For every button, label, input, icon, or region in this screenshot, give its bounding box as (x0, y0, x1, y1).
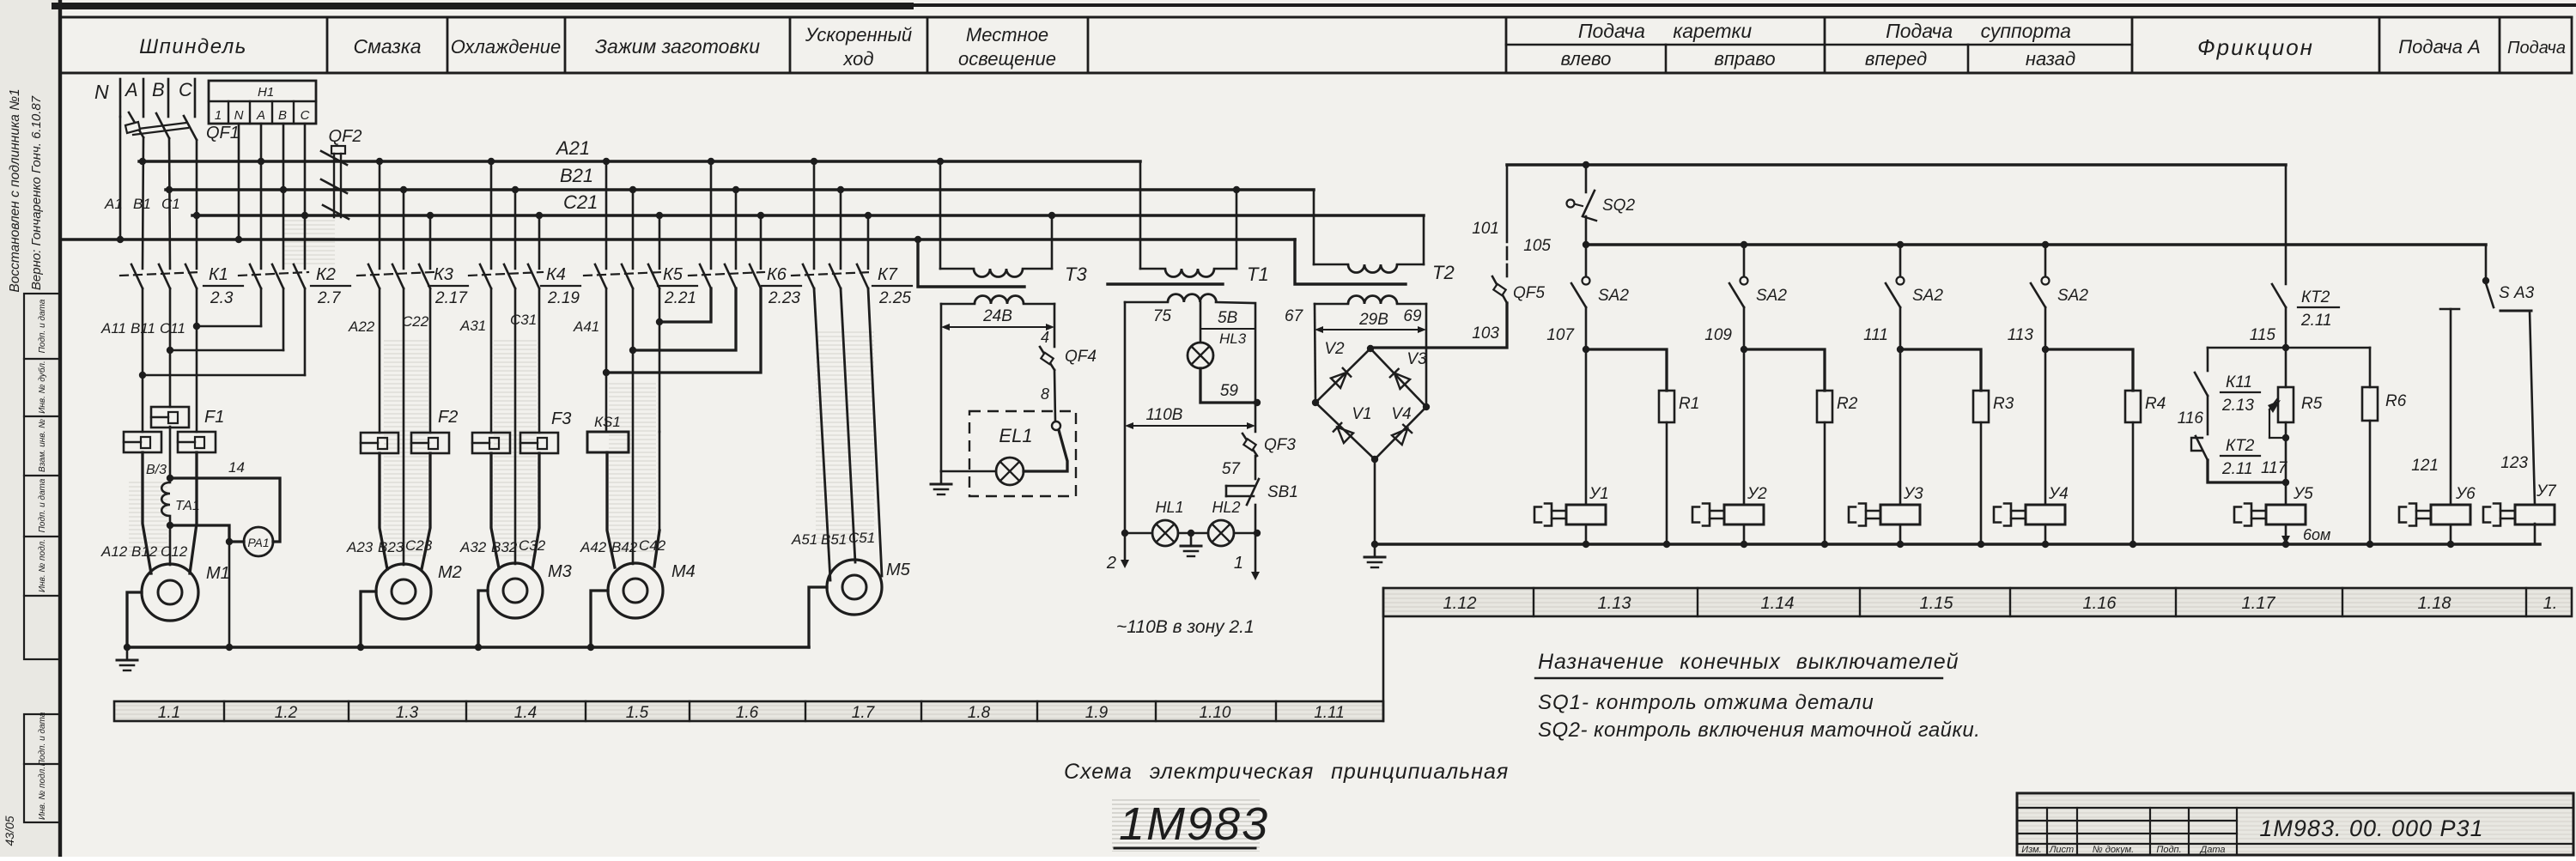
dashed enclosure EL1 (969, 411, 1076, 496)
thermal relay KS1 (587, 414, 629, 452)
svg-text:V4: V4 (1391, 405, 1411, 423)
svg-text:Охлаждение: Охлаждение (451, 36, 561, 58)
motor M4 (608, 562, 696, 618)
svg-text:67: 67 (1285, 307, 1304, 325)
control line top (1507, 163, 2286, 167)
wire SB1 down (1255, 505, 1257, 533)
svg-text:К5: К5 (663, 265, 683, 284)
ground symbol bridge (1374, 544, 1376, 557)
title block (2017, 793, 2573, 855)
lamp HL1 (1152, 520, 1178, 546)
svg-text:Н1: Н1 (258, 85, 274, 100)
junction dot 115 (2282, 344, 2289, 351)
wire HL3 to node 59 (1200, 368, 1257, 403)
wire N feeder (119, 117, 122, 240)
svg-text:Подача каретки: Подача каретки (1578, 20, 1753, 42)
contactor K2 contacts (239, 264, 350, 307)
svg-text:QF4: QF4 (1065, 348, 1097, 366)
wire R5 to Y5 (2285, 422, 2287, 505)
svg-text:НL2: НL2 (1212, 499, 1240, 516)
svg-text:110В: 110В (1146, 406, 1183, 424)
node 115 bus (2208, 347, 2370, 349)
svg-text:вперед: вперед (1865, 48, 1927, 70)
svg-text:Инв. № подл.: Инв. № подл. (38, 767, 47, 820)
wire M5 to ground bus (809, 587, 827, 647)
wires K5 to motor M4 (606, 288, 659, 567)
svg-text:1.14: 1.14 (1761, 594, 1795, 613)
svg-text:F2: F2 (438, 408, 458, 427)
wire KT2 branch top (2285, 165, 2287, 284)
svg-text:А: А (124, 79, 138, 100)
svg-text:24В: 24В (982, 307, 1012, 325)
switch SA2 branch 107 (1571, 245, 1629, 307)
wire jog A11 (143, 374, 305, 377)
svg-text:116: 116 (2178, 409, 2204, 427)
junction dot 113 (2042, 346, 2049, 353)
svg-text:6ом: 6ом (2303, 526, 2330, 543)
svg-text:1.15: 1.15 (1920, 594, 1954, 613)
svg-text:НL1: НL1 (1155, 499, 1183, 516)
svg-text:109: 109 (1704, 326, 1732, 344)
svg-text:А21: А21 (555, 137, 590, 159)
svg-text:К6: К6 (767, 265, 787, 284)
svg-text:2.11: 2.11 (2300, 312, 2332, 330)
dimension 24V (941, 307, 1054, 330)
svg-text:1.10: 1.10 (1200, 704, 1231, 722)
circuit breaker QF5 (1492, 276, 1545, 303)
electromagnet У4 (1994, 349, 2069, 544)
wire 2 to zone 2.1 (1106, 302, 1129, 573)
svg-text:С: С (179, 79, 192, 100)
svg-text:SВ1: SВ1 (1267, 483, 1298, 501)
motor M2 (376, 563, 462, 619)
svg-text:С11: С11 (160, 320, 185, 337)
thermal overload F3 (472, 409, 571, 453)
svg-text:SQ2- контроль включения маточн: SQ2- контроль включения маточной гайки. (1538, 719, 1980, 742)
junction dot SQ2 top (1583, 161, 1589, 168)
wire phase C to K1 (196, 140, 198, 269)
svg-text:Схема электрическая принципи: Схема электрическая принципиальная (1064, 760, 1509, 784)
svg-text:Зажим заготовки: Зажим заготовки (595, 35, 760, 58)
relay contact K11 (2195, 348, 2260, 415)
svg-text:КТ2: КТ2 (2226, 437, 2255, 455)
svg-text:1.11: 1.11 (1314, 704, 1345, 722)
svg-text:4: 4 (1041, 329, 1049, 346)
svg-text:Т1: Т1 (1247, 264, 1269, 285)
wire EL1 to ground (941, 470, 996, 473)
svg-text:123: 123 (2500, 454, 2528, 472)
svg-text:А1: А1 (104, 196, 123, 212)
svg-text:У2: У2 (1747, 485, 1767, 503)
svg-text:2.17: 2.17 (434, 289, 468, 307)
wire phase A to M1 (143, 375, 151, 573)
wire TA1 return (170, 525, 244, 542)
svg-text:У3: У3 (1903, 485, 1923, 503)
wire H1-B drop to K2 (283, 124, 285, 269)
resistor R1 (1586, 349, 1699, 544)
svg-text:2.21: 2.21 (664, 289, 696, 307)
wires K7 to motor M5 (814, 288, 882, 580)
circuit breaker QF3 (1242, 434, 1296, 456)
svg-text:Смазка: Смазка (353, 35, 421, 58)
wire H1-A drop to K2 (260, 124, 263, 269)
svg-text:1.18: 1.18 (2418, 594, 2451, 613)
wire T1 tap to HL3 (1200, 302, 1202, 343)
svg-text:А: А (256, 108, 265, 123)
svg-text:В42: В42 (611, 539, 638, 555)
svg-text:1.: 1. (2543, 594, 2558, 613)
svg-text:2.19: 2.19 (547, 289, 580, 307)
svg-text:С32: С32 (519, 537, 546, 554)
wire 117 (2208, 459, 2288, 482)
feeder separator bars (120, 79, 195, 117)
scan shading (384, 339, 428, 558)
svg-text:В12: В12 (131, 543, 158, 560)
svg-text:43/05: 43/05 (3, 816, 16, 846)
wire 1 to zone 2.1 (1234, 533, 1260, 580)
svg-text:N: N (234, 108, 244, 123)
ground symbol HL (1190, 533, 1193, 546)
wire phase B TA1 section (169, 350, 172, 482)
svg-text:М4: М4 (671, 562, 696, 581)
electromagnet У1 (1534, 349, 1609, 544)
svg-text:1М983. 00. 000 Р31: 1М983. 00. 000 Р31 (2259, 816, 2483, 841)
svg-text:освещение: освещение (958, 48, 1056, 70)
junction dots on buses (117, 158, 1240, 243)
diode V4 (1392, 424, 1413, 445)
svg-text:Инв. № подл.: Инв. № подл. (38, 539, 47, 592)
junction dots R5 (2282, 434, 2289, 486)
wire M3 to ground bus (478, 591, 488, 647)
thermal overload F1 (124, 407, 224, 452)
transformer T2 primary (1314, 262, 1455, 283)
svg-text:1.4: 1.4 (514, 704, 537, 722)
bus C21 (192, 191, 1424, 215)
svg-text:8: 8 (1041, 385, 1049, 403)
svg-text:Подп. и дата: Подп. и дата (38, 299, 47, 353)
wire T2 secondary left to bridge (1315, 304, 1315, 403)
resistor R2 (1744, 349, 1858, 544)
svg-text:С51: С51 (848, 530, 875, 546)
svg-text:Подача А: Подача А (2398, 36, 2481, 58)
svg-text:НL3: НL3 (1219, 330, 1247, 347)
svg-text:Подп. и дата: Подп. и дата (38, 478, 47, 532)
svg-text:С23: С23 (405, 537, 433, 554)
zone strip connector (1382, 588, 1385, 721)
svg-text:1: 1 (215, 108, 222, 123)
lamp EL1 (996, 458, 1024, 485)
wire 107 (1546, 307, 1586, 349)
svg-text:А41: А41 (573, 318, 599, 335)
dimension 110V (1125, 406, 1255, 429)
svg-text:Назначение конечных выключат: Назначение конечных выключателей (1538, 650, 1959, 674)
svg-text:Подп.: Подп. (2156, 845, 2181, 855)
contactor K3 contacts (357, 161, 468, 307)
switch SA2 branch 109 (1729, 245, 1787, 307)
svg-text:QF2: QF2 (329, 127, 362, 146)
wire bridge minus to bus (1374, 459, 1376, 544)
EL1 switch blade (1024, 430, 1067, 471)
svg-text:111: 111 (1863, 326, 1888, 344)
svg-text:КТ2: КТ2 (2301, 288, 2330, 306)
wire 123 (2500, 311, 2535, 505)
svg-text:М1: М1 (206, 564, 230, 583)
contactor K1 contacts (120, 264, 243, 307)
transformer T3 primary (940, 161, 1087, 285)
ground symbol main (126, 647, 129, 660)
svg-text:75: 75 (1153, 307, 1172, 325)
switch SA2 branch 111 (1886, 245, 1943, 307)
selector switch SA3 (2440, 277, 2535, 311)
motor M3 (488, 562, 572, 618)
svg-text:2.11: 2.11 (2221, 460, 2253, 478)
lamp HL2 (1208, 520, 1234, 546)
wire 111 (1863, 307, 1900, 349)
switch terminal circle EL1 (1052, 421, 1060, 430)
svg-text:Подача суппорта: Подача суппорта (1886, 20, 2071, 42)
svg-text:К11: К11 (2226, 373, 2252, 391)
svg-text:В51: В51 (821, 531, 847, 548)
svg-text:С: С (301, 108, 310, 123)
svg-text:115: 115 (2250, 326, 2276, 344)
wire T1 secondary right (1255, 303, 1257, 432)
svg-text:117: 117 (2261, 459, 2288, 477)
wire H1-C drop to K2 (304, 124, 307, 269)
svg-text:Фрикцион: Фрикцион (2197, 34, 2314, 60)
wire 101 with QF5 (1472, 165, 1507, 276)
junction dot 107 (1583, 346, 1589, 353)
svg-text:105: 105 (1523, 237, 1551, 255)
svg-text:SQ1- контроль отжима детали: SQ1- контроль отжима детали (1538, 691, 1874, 714)
limit switch SQ2 (1567, 165, 1636, 245)
svg-text:А51: А51 (791, 531, 817, 548)
junction dots bridge (1312, 345, 1430, 463)
svg-text:107: 107 (1546, 326, 1575, 344)
svg-text:R1: R1 (1679, 395, 1699, 413)
svg-text:QF1: QF1 (206, 124, 240, 142)
wire 103 (1370, 303, 1507, 348)
svg-text:В21: В21 (560, 165, 593, 186)
svg-text:N: N (94, 81, 109, 103)
svg-text:59: 59 (1220, 382, 1239, 400)
svg-text:Лист: Лист (2049, 845, 2074, 855)
wires K4 to motor M3 (491, 288, 539, 568)
resistor R3 (1900, 349, 2014, 544)
junction dot 109 (1741, 346, 1747, 353)
wire 113 (2008, 307, 2045, 349)
svg-text:К2: К2 (316, 265, 336, 284)
transformer T1 primary (1140, 161, 1269, 285)
wires K3 to motor M2 (380, 288, 430, 569)
relay contact KT2 upper (2272, 284, 2339, 330)
svg-text:Восстановлен с подлинника №1: Восстановлен с подлинника №1 (8, 88, 22, 292)
handwritten 1M983 (1112, 798, 1269, 852)
svg-text:С31: С31 (510, 312, 537, 328)
svg-text:РА1: РА1 (247, 536, 269, 549)
wire 14 to ammeter (170, 459, 280, 542)
svg-text:SQ2: SQ2 (1602, 197, 1635, 215)
margin stamp column (24, 294, 60, 659)
wire N to T3 screen (918, 240, 1024, 287)
svg-text:R2: R2 (1837, 395, 1858, 413)
svg-text:А42: А42 (580, 539, 607, 555)
svg-text:В1: В1 (133, 196, 151, 212)
svg-text:Подача: Подача (2507, 39, 2566, 58)
junction dot 59 (1254, 399, 1261, 406)
svg-text:В: В (152, 79, 165, 100)
svg-text:С12: С12 (161, 543, 188, 560)
svg-text:R4: R4 (2145, 395, 2166, 413)
push button SB1 (1226, 479, 1298, 505)
circuit breaker QF4 (1040, 347, 1097, 370)
svg-text:Изм.: Изм. (2021, 845, 2041, 855)
svg-text:ЕL1: ЕL1 (999, 425, 1032, 446)
svg-text:А22: А22 (348, 318, 375, 335)
svg-text:SА2: SА2 (1912, 287, 1943, 305)
ground bus of motors (127, 646, 809, 649)
svg-text:С42: С42 (639, 537, 666, 554)
svg-text:Дата: Дата (2198, 845, 2225, 855)
svg-text:КS1: КS1 (594, 414, 621, 430)
wire K6 output jog lower (606, 288, 761, 373)
control ground bus (1375, 543, 2540, 546)
svg-text:2.3: 2.3 (210, 289, 234, 307)
svg-text:14: 14 (228, 459, 245, 476)
wire jog B11 (170, 349, 283, 352)
svg-text:1: 1 (1234, 554, 1243, 573)
wire K6 output jog upper (659, 288, 711, 322)
diode V1 (1333, 422, 1353, 443)
bus A21 (139, 137, 1140, 161)
bus N (62, 238, 1295, 241)
svg-text:103: 103 (1472, 324, 1499, 343)
svg-text:1.8: 1.8 (968, 704, 991, 722)
wire K6 output jog middle (633, 288, 736, 350)
time relay contact KT2 delayed (2191, 396, 2260, 478)
electromagnet У3 (1849, 349, 1923, 544)
svg-text:113: 113 (2008, 326, 2034, 344)
bus B21 (166, 165, 1314, 190)
svg-text:Т3: Т3 (1065, 264, 1087, 285)
circuit breaker QF2 (321, 127, 361, 219)
svg-text:назад: назад (2026, 48, 2075, 70)
wire M2 to ground bus (361, 591, 376, 647)
wire N to T2 screen (1295, 240, 1406, 284)
junction dots K1 outputs (139, 323, 200, 379)
zone strip left (114, 701, 1383, 722)
svg-text:F3: F3 (551, 409, 571, 428)
wire TA1 to M1 (169, 516, 172, 565)
current transformer TA1 (161, 482, 200, 516)
svg-text:№ докум.: № докум. (2093, 845, 2134, 855)
electromagnet Y7 (2483, 482, 2557, 544)
header table grid (60, 17, 2572, 73)
svg-text:М5: М5 (886, 561, 911, 579)
junction dots lamp line (1121, 530, 1261, 537)
wire M4 to ground bus (591, 591, 608, 647)
header label Местное освещение (958, 24, 1056, 70)
wire T2 secondary right to bridge (1425, 304, 1428, 407)
svg-text:У7: У7 (2536, 482, 2557, 500)
svg-text:~110В в зону 2.1: ~110В в зону 2.1 (1116, 617, 1255, 637)
svg-text:2: 2 (1106, 554, 1116, 573)
svg-text:57: 57 (1222, 460, 1242, 478)
svg-text:М3: М3 (548, 562, 572, 581)
svg-text:29В: 29В (1358, 311, 1388, 329)
svg-text:Т2: Т2 (1432, 262, 1455, 283)
lamp HL3 (1188, 343, 1213, 368)
svg-text:1.9: 1.9 (1085, 704, 1109, 722)
svg-text:2.7: 2.7 (317, 289, 342, 307)
contactor K5 contacts (584, 161, 697, 307)
svg-text:1.6: 1.6 (736, 704, 759, 722)
svg-text:1.12: 1.12 (1443, 594, 1477, 613)
wire B21 to T2 (1313, 190, 1315, 264)
bus 105 (1523, 237, 2486, 255)
svg-text:2.23: 2.23 (768, 289, 800, 307)
wire QF4 to EL1 switch (1054, 370, 1055, 421)
wire 115 (2250, 307, 2286, 348)
svg-text:1.7: 1.7 (852, 704, 876, 722)
wire 121 (2411, 309, 2451, 505)
wire jog C11 (197, 325, 261, 328)
svg-text:2.13: 2.13 (2221, 397, 2254, 415)
svg-text:В: В (278, 108, 287, 123)
note heading limit switches (1535, 650, 1959, 678)
svg-text:К3: К3 (434, 265, 453, 284)
svg-text:V1: V1 (1352, 405, 1371, 423)
svg-text:Инв. № дубл.: Инв. № дубл. (37, 361, 47, 414)
svg-text:5В: 5В (1218, 309, 1238, 327)
wire QF3 to SB1 (1255, 456, 1257, 479)
ammeter PA1 (244, 527, 273, 556)
rectifier bridge V1-V4 (1315, 349, 1426, 459)
svg-text:SА2: SА2 (1598, 287, 1629, 305)
diode V3 (1389, 368, 1410, 389)
terminal block H1 (209, 81, 316, 124)
svg-text:1.17: 1.17 (2242, 594, 2276, 613)
svg-text:F1: F1 (204, 408, 224, 427)
svg-text:В/3: В/3 (146, 463, 167, 477)
svg-text:С21: С21 (563, 191, 598, 213)
svg-text:1.3: 1.3 (396, 704, 419, 722)
svg-text:2.25: 2.25 (878, 289, 911, 307)
svg-text:ТА1: ТА1 (175, 499, 200, 513)
wire phase C to M1 (190, 326, 197, 573)
contactor K7 contacts (792, 161, 912, 307)
svg-text:С22: С22 (402, 313, 429, 330)
header label Ускоренный ход (805, 24, 912, 70)
rheostat R5 (2268, 348, 2323, 438)
svg-text:SА2: SА2 (2057, 287, 2088, 305)
svg-text:Ускоренный: Ускоренный (805, 24, 912, 45)
svg-text:1.13: 1.13 (1598, 594, 1631, 613)
junction dots TA1 (167, 475, 233, 545)
junction dots ground bus (124, 644, 594, 651)
svg-text:К7: К7 (878, 265, 898, 284)
contactor K4 contacts (469, 161, 580, 307)
dimension 5V (1200, 328, 1254, 330)
wire PA1 branch to ground bus (228, 542, 231, 647)
ground symbol EL1 (940, 471, 943, 484)
wire T3 secondary right (1054, 304, 1056, 347)
electromagnet Y5 (2234, 485, 2330, 544)
svg-text:Подп. и дата: Подп. и дата (38, 712, 47, 766)
svg-text:SА2: SА2 (1756, 287, 1787, 305)
T1 core line (1108, 282, 1223, 285)
svg-text:R6: R6 (2385, 392, 2407, 410)
svg-text:1.16: 1.16 (2083, 594, 2117, 613)
